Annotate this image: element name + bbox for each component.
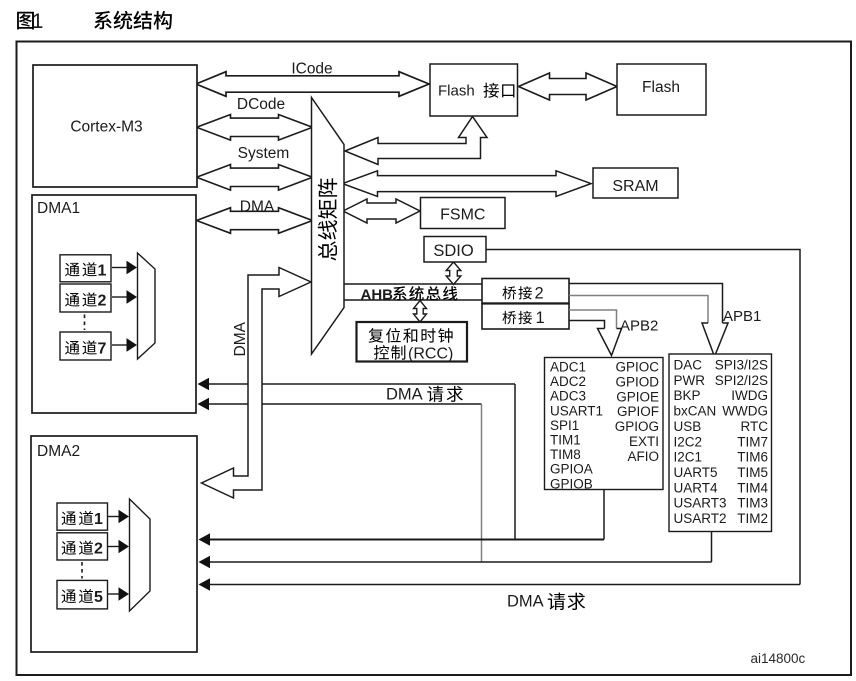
block FSMC [421, 198, 506, 229]
block DMA2 [31, 436, 197, 652]
svg-text:TIM4: TIM4 [737, 480, 768, 495]
block 桥接2 (bridge 2) [482, 279, 569, 304]
svg-text:SPI2/I2S: SPI2/I2S [715, 373, 768, 388]
figure title 系统结构 [94, 11, 112, 29]
ICode bus arrow [196, 72, 429, 97]
svg-text:DMA2: DMA2 [37, 443, 80, 460]
channel box 通道1 (DMA1) [60, 255, 111, 282]
wire APB2 box down to req line [603, 490, 605, 540]
block SRAM [593, 168, 678, 198]
svg-text:5: 5 [94, 589, 103, 606]
SRAM bus arrow [343, 171, 592, 197]
block Flash [617, 64, 706, 115]
svg-text:2: 2 [535, 284, 544, 302]
dashed line channels (DMA2) [81, 562, 83, 579]
arrow 通道7 to mux [112, 344, 127, 346]
wire bridge1 to APB2 lower [569, 321, 605, 329]
arrow 通道1 to mux (DMA2) [107, 516, 119, 518]
svg-text:1: 1 [32, 10, 44, 33]
wire drop from DMA1 req1 to APB2 req line [514, 384, 516, 540]
svg-text:ADC2: ADC2 [550, 374, 586, 389]
DMA2 to bus matrix Z-shaped arrow [202, 268, 312, 499]
svg-text:GPIOA: GPIOA [550, 462, 593, 477]
svg-text:IWDG: IWDG [731, 388, 768, 403]
block 桥接1 (bridge 1) [482, 304, 569, 329]
svg-text:TIM7: TIM7 [737, 434, 768, 449]
svg-text:RTC: RTC [740, 419, 768, 434]
wire APB1 peripherals DMA request to DMA2 [210, 561, 712, 563]
channel box 通道2 (DMA1) [60, 284, 111, 312]
svg-text:GPIOD: GPIOD [615, 374, 659, 389]
svg-text:System: System [238, 145, 290, 162]
bus matrix to Flash interface bent arrow [345, 117, 487, 165]
svg-text:GPIOF: GPIOF [617, 404, 659, 419]
block SDIO [424, 237, 486, 263]
svg-text:DAC: DAC [674, 358, 703, 373]
svg-text:Flash: Flash [438, 82, 475, 99]
svg-text:GPIOC: GPIOC [615, 360, 659, 375]
block Flash 接口 [430, 64, 518, 116]
System bus arrow [197, 165, 313, 191]
svg-text:BKP: BKP [674, 388, 701, 403]
svg-text:AHB: AHB [361, 286, 394, 303]
svg-text:ADC1: ADC1 [550, 360, 586, 375]
svg-text:TIM6: TIM6 [737, 450, 768, 465]
svg-text:WWDG: WWDG [722, 404, 768, 419]
svg-text:PWR: PWR [674, 373, 706, 388]
svg-text:1: 1 [94, 511, 103, 528]
svg-text:SDIO: SDIO [433, 242, 474, 260]
wire DMA request to DMA1 #1 [209, 383, 248, 385]
arrow 通道5 to mux (DMA2) [107, 593, 119, 595]
wire bridge2 to APB1 lower [569, 296, 708, 324]
svg-text:DMA: DMA [232, 321, 249, 356]
wire bridge1 to APB2 upper [569, 310, 617, 329]
block Cortex-M3 [33, 65, 197, 187]
svg-text:USB: USB [674, 419, 702, 434]
wire bridge2 to APB1 upper [569, 284, 723, 324]
arrow 通道2 to mux [112, 296, 127, 298]
DCode bus arrow [197, 115, 313, 141]
svg-text:ICode: ICode [291, 61, 332, 78]
svg-text:FSMC: FSMC [440, 207, 485, 224]
svg-text:USART2: USART2 [674, 511, 727, 526]
svg-text:DMA1: DMA1 [37, 200, 80, 217]
svg-text:USART1: USART1 [550, 403, 603, 418]
channel box 通道5 (DMA2) [57, 580, 108, 609]
svg-text:GPIOE: GPIOE [616, 389, 659, 404]
bus matrix [312, 98, 345, 355]
FSMC bus arrow [343, 199, 420, 223]
APB1 arrowhead [702, 323, 728, 357]
svg-text:TIM3: TIM3 [737, 496, 768, 511]
wire DMA request to DMA1 #2 [209, 403, 248, 405]
svg-text:GPIOG: GPIOG [615, 419, 659, 434]
dashed line channels (DMA1) [84, 315, 86, 331]
svg-text:DCode: DCode [237, 96, 285, 113]
SDIO to AHB vertical arrow [446, 262, 461, 285]
svg-text:USART3: USART3 [674, 496, 727, 511]
svg-text:I2C2: I2C2 [674, 434, 703, 449]
svg-text:EXTI: EXTI [629, 434, 659, 449]
DMA bus arrow (DMA1 to bus matrix) [197, 208, 313, 234]
svg-text:2: 2 [94, 541, 103, 558]
svg-text:ADC3: ADC3 [550, 389, 586, 404]
svg-text:DMA: DMA [386, 386, 423, 404]
wire APB1 box down to req line [711, 532, 713, 563]
svg-text:SPI1: SPI1 [550, 418, 579, 433]
svg-text:(RCC): (RCC) [408, 346, 453, 363]
svg-text:SRAM: SRAM [612, 178, 658, 195]
svg-text:ai14800c: ai14800c [751, 651, 806, 666]
figure title 图1 [17, 12, 34, 30]
svg-text:1: 1 [98, 262, 107, 279]
svg-text:DMA: DMA [507, 593, 544, 611]
AHB to RCC vertical arrow [414, 301, 427, 323]
AHB system bus top line [344, 283, 482, 285]
channel box 通道2 (DMA2) [57, 533, 108, 560]
svg-text:TIM5: TIM5 [737, 465, 768, 480]
svg-text:Flash: Flash [642, 79, 680, 96]
svg-text:TIM8: TIM8 [550, 447, 581, 462]
svg-text:GPIOB: GPIOB [550, 476, 593, 491]
wire SDIO DMA request to DMA2 [210, 584, 800, 586]
channel box 通道1 (DMA2) [57, 503, 108, 530]
arrow 通道1 to mux [112, 267, 127, 269]
svg-text:1: 1 [536, 309, 545, 327]
DMA2 mux trapezoid [130, 499, 151, 611]
wire drop from DMA1 req2 to APB1 req line [481, 404, 483, 562]
svg-text:DMA: DMA [240, 199, 275, 216]
svg-text:2: 2 [98, 293, 107, 310]
svg-text:APB2: APB2 [620, 318, 658, 335]
Flash interface to Flash memory arrow [519, 73, 618, 100]
svg-text:bxCAN: bxCAN [674, 404, 717, 419]
DMA1 mux trapezoid [138, 253, 156, 359]
svg-text:AFIO: AFIO [627, 449, 659, 464]
svg-text:UART4: UART4 [674, 480, 719, 495]
block DMA1 [32, 195, 196, 413]
AHB system bus bottom line [344, 299, 482, 301]
block 复位和时钟控制(RCC) [357, 322, 468, 362]
wire APB2 peripherals DMA request to DMA2 [210, 539, 604, 541]
svg-text:7: 7 [98, 341, 107, 358]
APB2 arrowhead [598, 329, 622, 356]
channel box 通道7 (DMA1) [60, 332, 111, 360]
svg-text:APB1: APB1 [723, 308, 761, 325]
svg-text:TIM1: TIM1 [550, 433, 581, 448]
block APB1 peripherals [669, 354, 772, 532]
svg-text:SPI3/I2S: SPI3/I2S [715, 358, 768, 373]
block APB2 peripherals [545, 358, 664, 490]
svg-text:Cortex-M3: Cortex-M3 [70, 118, 142, 135]
svg-text:I2C1: I2C1 [674, 450, 703, 465]
label 总线矩阵 (vertical) [318, 178, 337, 196]
svg-text:TIM2: TIM2 [737, 511, 768, 526]
wire SDIO right then down [486, 250, 801, 585]
svg-text:UART5: UART5 [674, 465, 718, 480]
arrow 通道2 to mux (DMA2) [107, 546, 119, 548]
